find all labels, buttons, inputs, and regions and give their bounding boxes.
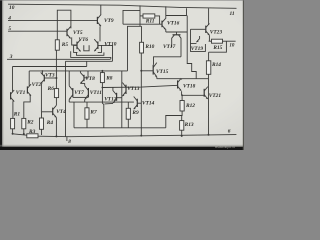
transistor VT5: [66, 29, 68, 36]
node junction R12 top: [181, 94, 183, 96]
transistor VT21: [203, 89, 205, 97]
transistor VT13: [125, 85, 127, 94]
wire R13 bottom lead: [181, 130, 183, 136]
svg-text:5: 5: [8, 26, 11, 32]
wire bottom rail middle: [38, 135, 236, 137]
wire R8 bottom lead: [101, 83, 103, 88]
wire VT4 emitter drop: [55, 117, 57, 136]
resistor R15 right lead: [223, 40, 236, 42]
svg-text:VT16: VT16: [167, 21, 180, 27]
resistor R11 left lead: [140, 15, 143, 17]
wire emitter bus: [69, 101, 134, 103]
transistor VT12: [116, 93, 118, 101]
wire R9 top lead: [127, 102, 129, 108]
wire VT9 emitter to VT10: [99, 26, 101, 41]
wire VT5 collector loop over R5: [57, 10, 71, 40]
transistor VT18: [177, 80, 179, 88]
wire base line riser: [123, 10, 140, 24]
resistor R9: [126, 108, 130, 119]
node junction rail mid: [140, 135, 142, 137]
wire mid drop to lower rail: [121, 71, 123, 128]
transistor VT8: [83, 75, 85, 81]
svg-text:10: 10: [229, 44, 235, 49]
node junction R8 bottom: [102, 87, 104, 89]
resistor R15 left lead: [209, 40, 212, 42]
transistor VT16: [161, 21, 163, 28]
wire VT7-VT11 link: [73, 96, 89, 98]
svg-text:VT4: VT4: [56, 109, 66, 115]
resistor R14: [206, 61, 210, 75]
svg-text:VT17: VT17: [163, 44, 176, 50]
wire VT10 fold bracket: [98, 45, 102, 52]
photo edge right: [243, 0, 244, 150]
svg-text:R14: R14: [211, 62, 221, 68]
wire VT18 emitter to VT21 base: [182, 94, 205, 96]
svg-text:VT3: VT3: [45, 72, 55, 78]
wire VT6 fold bracket: [74, 45, 78, 52]
svg-text:VT7: VT7: [74, 90, 84, 96]
node junction VT21 emitter / rail: [208, 134, 210, 136]
transistor VT23: [205, 26, 207, 33]
photo edge top: [0, 0, 244, 2]
wire emitter bus left drop: [73, 102, 75, 128]
wire VT23 emitter down: [208, 35, 210, 41]
wire R7 bottom lead: [86, 119, 88, 128]
wire VT9 collector to rail: [100, 5, 102, 15]
wire VT23 base line: [191, 28, 206, 30]
node junction VT3 base / R5 column: [55, 77, 57, 79]
svg-text:VT6: VT6: [79, 37, 89, 43]
resistor R13: [180, 121, 184, 131]
wire R12 top lead: [181, 95, 183, 100]
resistor R15: [212, 39, 223, 43]
wire VT2 feed drop: [28, 71, 30, 86]
svg-text:11: 11: [230, 11, 235, 17]
svg-text:R11: R11: [145, 19, 155, 25]
svg-text:R2: R2: [26, 119, 34, 125]
wire VT12 collector riser: [112, 87, 114, 91]
wire VT12 base stub: [117, 97, 122, 99]
wire VT16 collector to rail: [165, 6, 167, 18]
wire input line pin 5 to VT5 base: [8, 30, 67, 32]
transistor VT19 symbol: [196, 39, 199, 43]
resistor R7: [85, 108, 89, 119]
wire VT18 base line: [102, 85, 177, 87]
wire VT18 collector riser: [181, 78, 183, 81]
svg-text:8: 8: [68, 139, 71, 145]
wire VT15 emitter drop: [156, 77, 158, 79]
wire VT16 emitter down: [165, 29, 167, 32]
resistor R4: [40, 118, 44, 129]
wire R4 top lead: [41, 112, 43, 118]
wire VT5 emitter to VT6 base: [72, 37, 77, 45]
wire column R6 top: [55, 78, 57, 89]
wire R14 top lead: [208, 52, 210, 61]
svg-text:3: 3: [9, 54, 13, 60]
wire R5 bottom column (R5-R6-VT4): [55, 50, 57, 78]
svg-text:6: 6: [228, 129, 231, 135]
node junction VT4 emitter / rail: [55, 135, 57, 137]
wire diff outer U: [71, 51, 111, 59]
wire VT16 base line: [123, 23, 162, 25]
photo edge bottom: [0, 147, 244, 150]
wire staircase to output stage: [187, 16, 196, 79]
transistor VT7: [72, 88, 74, 97]
wire emitter join U: [84, 45, 89, 51]
wire VT18 emitter drop: [181, 91, 183, 95]
wire R12 bottom link: [166, 111, 182, 128]
wire lower emitter rail: [74, 127, 166, 129]
wire VT7 emitter drop: [68, 99, 70, 102]
svg-text:VT1: VT1: [16, 90, 26, 96]
svg-text:VT14: VT14: [142, 100, 155, 106]
svg-text:VT8: VT8: [85, 76, 95, 82]
svg-text:R1: R1: [13, 112, 21, 118]
svg-text:Bsaamkpu.ru: Bsaamkpu.ru: [215, 145, 235, 149]
wire R1 bottom lead: [12, 129, 14, 134]
svg-text:4: 4: [7, 16, 11, 22]
paper background: [0, 0, 244, 150]
svg-text:VT11: VT11: [90, 90, 102, 96]
svg-text:R7: R7: [89, 109, 97, 115]
wire VT14 base stub: [137, 102, 141, 104]
wire VT8 emitter riser: [79, 71, 81, 73]
resistor R11: [143, 14, 155, 18]
wire VT8 collector jog: [80, 82, 84, 84]
resistor R11 right lead: [155, 16, 160, 24]
svg-text:R9: R9: [131, 110, 139, 116]
wire VT11 collector riser: [84, 83, 86, 86]
wire VT3 emitter drop: [40, 84, 42, 112]
wire R15 return: [209, 41, 227, 52]
wire VT3 collector drop: [41, 71, 43, 75]
wire top positive rail (pin 10 to pin 11): [8, 4, 237, 8]
wire VT8 base stub: [84, 71, 88, 78]
wire VT10 base feed: [102, 46, 113, 62]
node junction bus C / VT3: [42, 70, 44, 72]
transistor VT17 left leg: [172, 35, 175, 47]
wire VT2 emitter jog: [24, 96, 30, 119]
wire R9 bottom lead: [127, 119, 129, 128]
svg-text:VT10: VT10: [104, 42, 117, 48]
transistor VT11: [87, 88, 89, 97]
wire R14 bottom column: [208, 74, 210, 134]
wire VT15 base: [141, 70, 153, 72]
svg-text:R3: R3: [28, 129, 36, 135]
wire tall riser x127: [128, 26, 142, 71]
resistor R6: [54, 89, 58, 98]
wire R6 bottom / VT4 collector: [55, 98, 57, 106]
svg-text:R10: R10: [144, 44, 154, 50]
resistor R1: [11, 118, 15, 128]
resistor R3: [27, 134, 38, 138]
wire diff inner U: [77, 52, 104, 55]
wire R8 column down: [102, 88, 103, 128]
transistor VT3: [43, 75, 45, 82]
transistor VT4: [52, 108, 54, 116]
svg-text:R12: R12: [185, 103, 195, 109]
resistor R12: [180, 101, 184, 112]
wire VT23 base riser: [190, 29, 192, 43]
node junction R8 top: [101, 70, 103, 72]
wire R13 top lead: [181, 116, 183, 121]
svg-text:VT21: VT21: [209, 93, 222, 99]
svg-text:VT2: VT2: [32, 82, 42, 88]
node terminal 8 stub: [66, 137, 68, 141]
wire line pin 3: [7, 58, 111, 60]
svg-text:VT18: VT18: [183, 84, 196, 90]
wire R8 top lead: [101, 71, 103, 73]
wire bus A: [66, 60, 113, 62]
wire R10 top lead: [141, 26, 143, 42]
wire VT3 base line: [44, 77, 56, 79]
wire VT23 collector to rail: [208, 8, 210, 25]
wire VT12 emitter link: [105, 102, 113, 105]
svg-text:VT5: VT5: [73, 30, 83, 36]
transistor VT15: [152, 65, 154, 75]
svg-text:VT23: VT23: [210, 30, 223, 36]
transistor VT10: [97, 41, 99, 49]
resistor R8: [100, 73, 104, 83]
wire VT11 emitter drop: [84, 99, 86, 102]
wire R7 top lead: [86, 102, 88, 108]
wire VT7 collector riser: [68, 71, 70, 86]
transistor VT2: [26, 86, 28, 93]
svg-text:VT19: VT19: [191, 46, 204, 52]
svg-text:10: 10: [9, 5, 15, 11]
resistor R2: [22, 118, 26, 128]
transistor VT9: [96, 17, 98, 24]
transistor VT17 right leg: [179, 35, 182, 57]
svg-text:VT13: VT13: [127, 86, 140, 92]
svg-text:VT9: VT9: [104, 18, 114, 24]
wire R4 bottom lead: [41, 129, 43, 135]
resistor R5: [55, 40, 59, 50]
transistor VT17 bar: [173, 34, 181, 36]
transistor VT6: [76, 42, 78, 50]
transistor VT14: [136, 99, 138, 107]
node junction R2 / rail: [23, 133, 25, 135]
transistor VT17 stem: [176, 32, 178, 35]
wire bus A drop to rail: [65, 61, 67, 136]
node junction R13 / rail: [181, 135, 183, 137]
wire VT1 emitter to R1: [12, 102, 14, 119]
svg-text:R13: R13: [184, 122, 194, 128]
wire bus B: [13, 66, 87, 68]
wire R2 bottom lead: [23, 129, 25, 134]
wire VT19 loop: [191, 43, 206, 51]
transistor VT1: [10, 92, 12, 99]
wire VT4 base line: [42, 111, 53, 113]
wire input line pin 4 to VT9 base: [8, 20, 97, 22]
node junction R10/VT15 base: [140, 70, 142, 72]
wire bus C long: [29, 70, 127, 72]
wire bottom rail left: [13, 134, 27, 135]
svg-text:VT15: VT15: [156, 69, 169, 75]
svg-text:R6: R6: [47, 86, 55, 92]
wire VT1 feed drop: [12, 67, 14, 92]
wire R10 column continues: [140, 71, 142, 136]
svg-text:R8: R8: [105, 76, 113, 82]
wire VT17 top line: [166, 31, 187, 33]
wire collector bus y78.7: [157, 78, 209, 80]
svg-text:R4: R4: [46, 120, 54, 126]
node junction R1 / rail: [12, 133, 14, 135]
wire bus B riser: [86, 61, 88, 66]
wire VT17 to VT15 collector: [154, 57, 182, 65]
svg-text:R15: R15: [212, 45, 222, 51]
resistor R10: [140, 42, 144, 53]
wire R10 bottom lead: [140, 53, 142, 71]
wire link line: [166, 8, 187, 15]
svg-text:R5: R5: [61, 42, 69, 48]
photo edge left: [0, 0, 2, 150]
wire R11 column from rail: [139, 5, 141, 26]
